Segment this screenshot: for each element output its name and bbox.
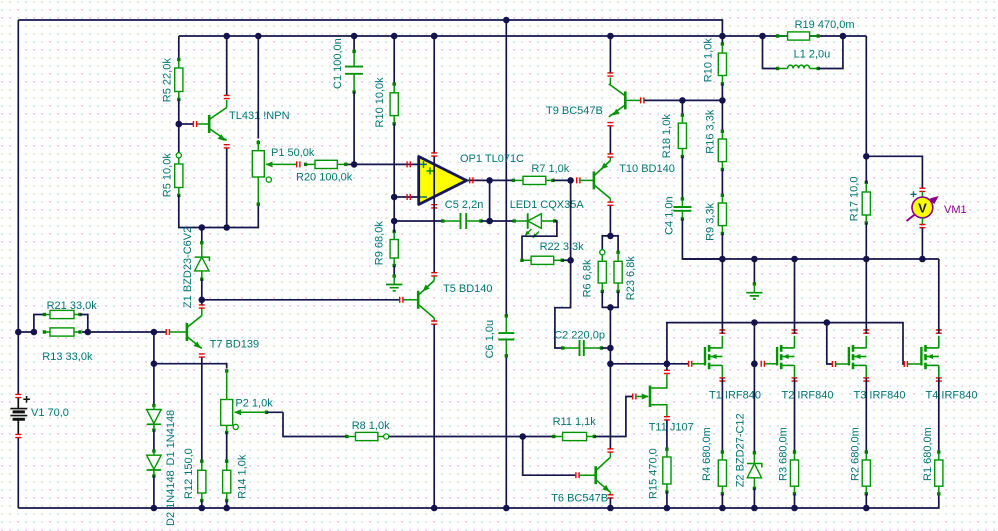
wire T4 gate tick	[904, 361, 907, 367]
transistor T9 BC547B	[624, 91, 627, 109]
capacitor C1 100,0n	[353, 36, 355, 52]
wire R13 node to T7 base	[82, 331, 166, 333]
resistor R20 100,0k	[297, 161, 300, 167]
wire output node down to C5 right	[489, 180, 491, 221]
svg-text:R3 680,0m: R3 680,0m	[777, 427, 789, 481]
wire center vertical node x=610 down to T6 collector	[609, 307, 611, 449]
wire T1 gate	[689, 361, 692, 367]
resistor R15 470,0	[666, 420, 668, 450]
svg-text:P2 1,0k: P2 1,0k	[235, 398, 273, 410]
svg-text:R12 150,0: R12 150,0	[183, 448, 195, 499]
svg-text:C6 1,0u: C6 1,0u	[484, 320, 496, 359]
resistor R4 680,0m	[721, 452, 723, 460]
wire top border from battery rail to upper-right corner	[18, 20, 722, 36]
svg-text:R9 3,3k: R9 3,3k	[705, 203, 717, 241]
svg-text:T6 BC547B: T6 BC547B	[551, 493, 608, 505]
resistor R21 33,0k	[34, 315, 45, 333]
svg-text:P1 50,0k: P1 50,0k	[271, 147, 315, 159]
svg-text:C5 2,2n: C5 2,2n	[445, 199, 484, 211]
battery V1 70,0	[15, 394, 21, 397]
capacitor C5 2,2n	[394, 220, 443, 222]
transistor TL431 !NPN	[179, 123, 193, 125]
svg-text:T11 J107: T11 J107	[649, 421, 694, 433]
svg-text:V1 70,0: V1 70,0	[31, 407, 69, 419]
zener Z2 BZD27-C12	[753, 364, 755, 454]
wire op-amp - input	[394, 196, 419, 198]
node bus36 x=434	[431, 33, 438, 40]
resistor R17 10,0	[865, 182, 867, 192]
svg-text:R5 22,0k: R5 22,0k	[162, 58, 174, 103]
wire diode branch node	[151, 360, 158, 367]
svg-text:T1 IRF840: T1 IRF840	[709, 389, 761, 401]
wire T2 gate riser	[753, 323, 755, 364]
svg-text:R17 10,0: R17 10,0	[849, 177, 861, 222]
inductor L1 2,0u	[763, 36, 779, 69]
node base y=124	[176, 121, 183, 128]
wire bus right corner down to R17 node	[865, 36, 867, 156]
wire R8 to R11 node	[389, 436, 555, 438]
wire R5 chain node	[178, 100, 180, 156]
wire R11 to T11 gate riser	[594, 397, 633, 437]
wire T3 gate riser	[827, 323, 832, 364]
svg-text:R20 100,0k: R20 100,0k	[296, 172, 353, 184]
wire T10 collector down to R6/R23 bracket	[609, 206, 611, 236]
svg-text:V: V	[918, 200, 927, 215]
wire T9 base node	[644, 99, 722, 101]
wire mid distribution bus y=259	[682, 258, 938, 260]
svg-text:R15 470,0: R15 470,0	[648, 448, 660, 499]
svg-text:T10 BD140: T10 BD140	[619, 163, 675, 175]
wire T7 emitter down to R12	[199, 354, 205, 357]
svg-text:T9 BC547B: T9 BC547B	[546, 105, 603, 117]
wire T1 drain to bus	[721, 259, 723, 334]
nodes on gate wire	[664, 361, 671, 368]
wire op-amp output	[467, 179, 514, 181]
transistor T7 BD139	[170, 331, 187, 333]
wire bottom of TL431 cell y=227.5	[179, 195, 258, 227]
wire T5 collector to bottom bus	[433, 325, 435, 509]
wire P2 top feed	[154, 364, 227, 369]
svg-text:C4 1,0n: C4 1,0n	[664, 196, 676, 235]
node R17 top	[863, 153, 870, 160]
transistor T6 BC547B	[579, 474, 595, 476]
wire op-amp + input	[354, 163, 419, 165]
svg-text:R5 10,0k: R5 10,0k	[162, 153, 174, 198]
resistor R1 680,0m	[938, 452, 940, 460]
svg-text:R11 1,1k: R11 1,1k	[553, 416, 597, 428]
op-amp U1 OP1 TL071C	[433, 36, 435, 153]
svg-text:Z2 BZD27-C12: Z2 BZD27-C12	[735, 413, 747, 487]
svg-text:R9 68,0k: R9 68,0k	[374, 221, 386, 266]
transistor T10 BD140	[593, 171, 596, 189]
resistor R19 470,0m	[759, 33, 766, 40]
resistor R18 1,0k	[681, 100, 683, 116]
resistor R9 68,0k	[393, 232, 395, 240]
nodes on bottom bus	[151, 505, 158, 512]
wire TL431 emitter down to y=227.5	[224, 145, 230, 148]
svg-text:R1 680,0m: R1 680,0m	[922, 427, 934, 481]
wire bracket to R6 and R23 tops	[602, 236, 618, 252]
transistor T1 IRF840	[704, 347, 706, 365]
resistor R3 680,0m	[794, 452, 796, 460]
resistor R5 10,0k	[178, 155, 180, 164]
wire D1 to D2	[153, 430, 155, 451]
svg-text:T3 IRF840: T3 IRF840	[854, 389, 906, 401]
wire V+ rail x=506 from top border down to C6	[505, 20, 507, 316]
wire C4 to bus y=259	[682, 219, 722, 259]
wire control bus y=436.5 from P2 to R11	[283, 412, 347, 436]
wire T2 gate	[761, 361, 764, 367]
capacitor C2 220,0p	[555, 260, 571, 348]
svg-text:R2 680,0m: R2 680,0m	[849, 427, 861, 481]
wire - input node down to C5	[393, 197, 395, 221]
resistor R12 150,0	[201, 461, 203, 470]
ground for R9	[393, 276, 395, 285]
resistor R10 10,0k	[393, 36, 395, 85]
wire T6 base from control bus	[523, 437, 576, 476]
svg-text:D1 1N4148: D1 1N4148	[165, 410, 177, 466]
node top border x=506	[503, 17, 510, 24]
svg-text:R10 1,0k: R10 1,0k	[703, 38, 715, 83]
resistor R9 3,3k	[721, 195, 723, 203]
wire T6 emitter to bottom bus	[609, 498, 611, 508]
resistor R23 6,8k	[616, 251, 619, 254]
wire P2 wiper to control bus	[266, 411, 283, 413]
svg-text:T7 BD139: T7 BD139	[210, 338, 260, 350]
svg-text:R21 33,0k: R21 33,0k	[47, 300, 98, 312]
wire T3 source to R2	[865, 378, 867, 453]
wire T3 drain to bus	[865, 259, 867, 334]
svg-text:T4 IRF840: T4 IRF840	[926, 389, 978, 401]
svg-text:R7 1,0k: R7 1,0k	[531, 163, 569, 175]
wire T4 drain to bus corner	[938, 259, 940, 334]
potentiometer P1 50,0k	[257, 36, 259, 139]
svg-text:R23 6,8k: R23 6,8k	[625, 256, 637, 301]
transistor T2 IRF840	[776, 347, 778, 365]
wire gate node y=363.8 from x=610 to T1 gate	[609, 363, 611, 365]
resistor R14 1,0k	[226, 461, 228, 470]
wire to voltmeter branch	[866, 156, 922, 188]
wire P2 bottom to R14	[226, 433, 228, 462]
svg-text:R4 680,0m: R4 680,0m	[701, 427, 713, 481]
wire T11 drain to gate node	[666, 364, 668, 370]
svg-text:L1 2,0u: L1 2,0u	[794, 48, 831, 60]
wire T9 collector to top bus	[609, 36, 611, 73]
wire TL431 collector to top bus	[226, 36, 228, 95]
wire main horizontal supply bus y=36	[179, 35, 867, 37]
capacitor C6 1,0u	[505, 316, 507, 333]
resistor R6 6,8k	[600, 250, 605, 255]
wire T2 drain to bus	[794, 259, 796, 334]
wire battery node to R21/R13	[15, 329, 22, 336]
wire R6/R23 bottoms merge	[602, 291, 618, 307]
diode D1 1N4148	[152, 404, 155, 407]
svg-text:VM1: VM1	[944, 204, 967, 216]
svg-text:C2 220,0p: C2 220,0p	[554, 329, 605, 341]
resistor R2 680,0m	[865, 452, 867, 460]
wire zener node to T5 base	[202, 299, 400, 301]
svg-text:R14 1,0k: R14 1,0k	[237, 454, 249, 499]
svg-text:TL431 !NPN: TL431 !NPN	[229, 110, 290, 122]
svg-text:C1 100,0n: C1 100,0n	[332, 38, 344, 89]
resistor R16 3,3k	[721, 100, 723, 132]
transistor T11 J107	[633, 394, 636, 400]
svg-text:R6 6,8k: R6 6,8k	[582, 259, 594, 297]
svg-text:R13 33,0k: R13 33,0k	[42, 351, 93, 363]
resistor R8 1,0k	[347, 436, 356, 438]
potentiometer P2 1,0k	[225, 369, 228, 372]
wire T1 source to R4	[721, 378, 723, 453]
resistor R10 1,0k	[721, 36, 723, 45]
wire T3 gate tick	[832, 361, 835, 367]
LED1 CQX35A	[490, 220, 515, 222]
zener Z1 BZD23-C6V2	[201, 228, 203, 244]
wire V+ rail C6 to bottom bus	[505, 356, 507, 508]
voltmeter VM1	[919, 188, 925, 191]
wire gate bus riser and top gate bus y=322.6	[667, 323, 905, 364]
svg-text:R8 1,0k: R8 1,0k	[352, 420, 390, 432]
svg-text:R16 3,3k: R16 3,3k	[705, 109, 717, 154]
wire bottom ground bus	[18, 494, 939, 508]
wire left rail from top corner down to battery	[17, 20, 19, 395]
wire R7 node down to R22 node	[570, 180, 572, 260]
ground at mid bus	[753, 259, 755, 285]
svg-text:Z1 BZD23-C6V2: Z1 BZD23-C6V2	[182, 227, 194, 308]
diode D2 1N4148	[152, 449, 155, 452]
transistor T5 BD140	[403, 299, 418, 301]
svg-text:OP1 TL071C: OP1 TL071C	[460, 153, 524, 165]
wire T2 source to R3	[794, 378, 796, 453]
wire D2 to bottom bus	[153, 476, 155, 508]
svg-text:R19 470,0m: R19 470,0m	[795, 19, 855, 31]
svg-text:D2 1N4148: D2 1N4148	[165, 470, 177, 526]
resistor R11 1,1k	[554, 436, 563, 438]
capacitor C4 1,0n	[681, 157, 683, 200]
wire T7 collector to zener node	[201, 300, 203, 305]
svg-text:LED1 CQX35A: LED1 CQX35A	[510, 199, 585, 211]
wire op-amp power rail down to T5	[433, 205, 435, 273]
wire T9 emitter to T10 emitter	[607, 123, 613, 126]
wire R16 to R9	[721, 170, 723, 196]
wire LED cathode to R22	[522, 221, 557, 260]
svg-text:R18 1,0k: R18 1,0k	[661, 114, 673, 159]
resistor R13 33,0k	[44, 331, 50, 333]
transistor T4 IRF840	[920, 347, 922, 365]
wire T4 source to R1	[938, 378, 940, 453]
svg-text:R22 3,3k: R22 3,3k	[540, 241, 585, 253]
svg-text:T2 IRF840: T2 IRF840	[782, 389, 834, 401]
resistor R5 22,0k	[178, 36, 180, 60]
svg-text:R10 10,0k: R10 10,0k	[374, 77, 386, 128]
resistor R22 3,3k	[522, 259, 531, 261]
svg-text:T5 BD140: T5 BD140	[443, 283, 493, 295]
resistor R7 1,0k	[513, 179, 523, 181]
transistor T3 IRF840	[848, 347, 850, 365]
wire left rail battery to bottom bus	[17, 437, 19, 508]
